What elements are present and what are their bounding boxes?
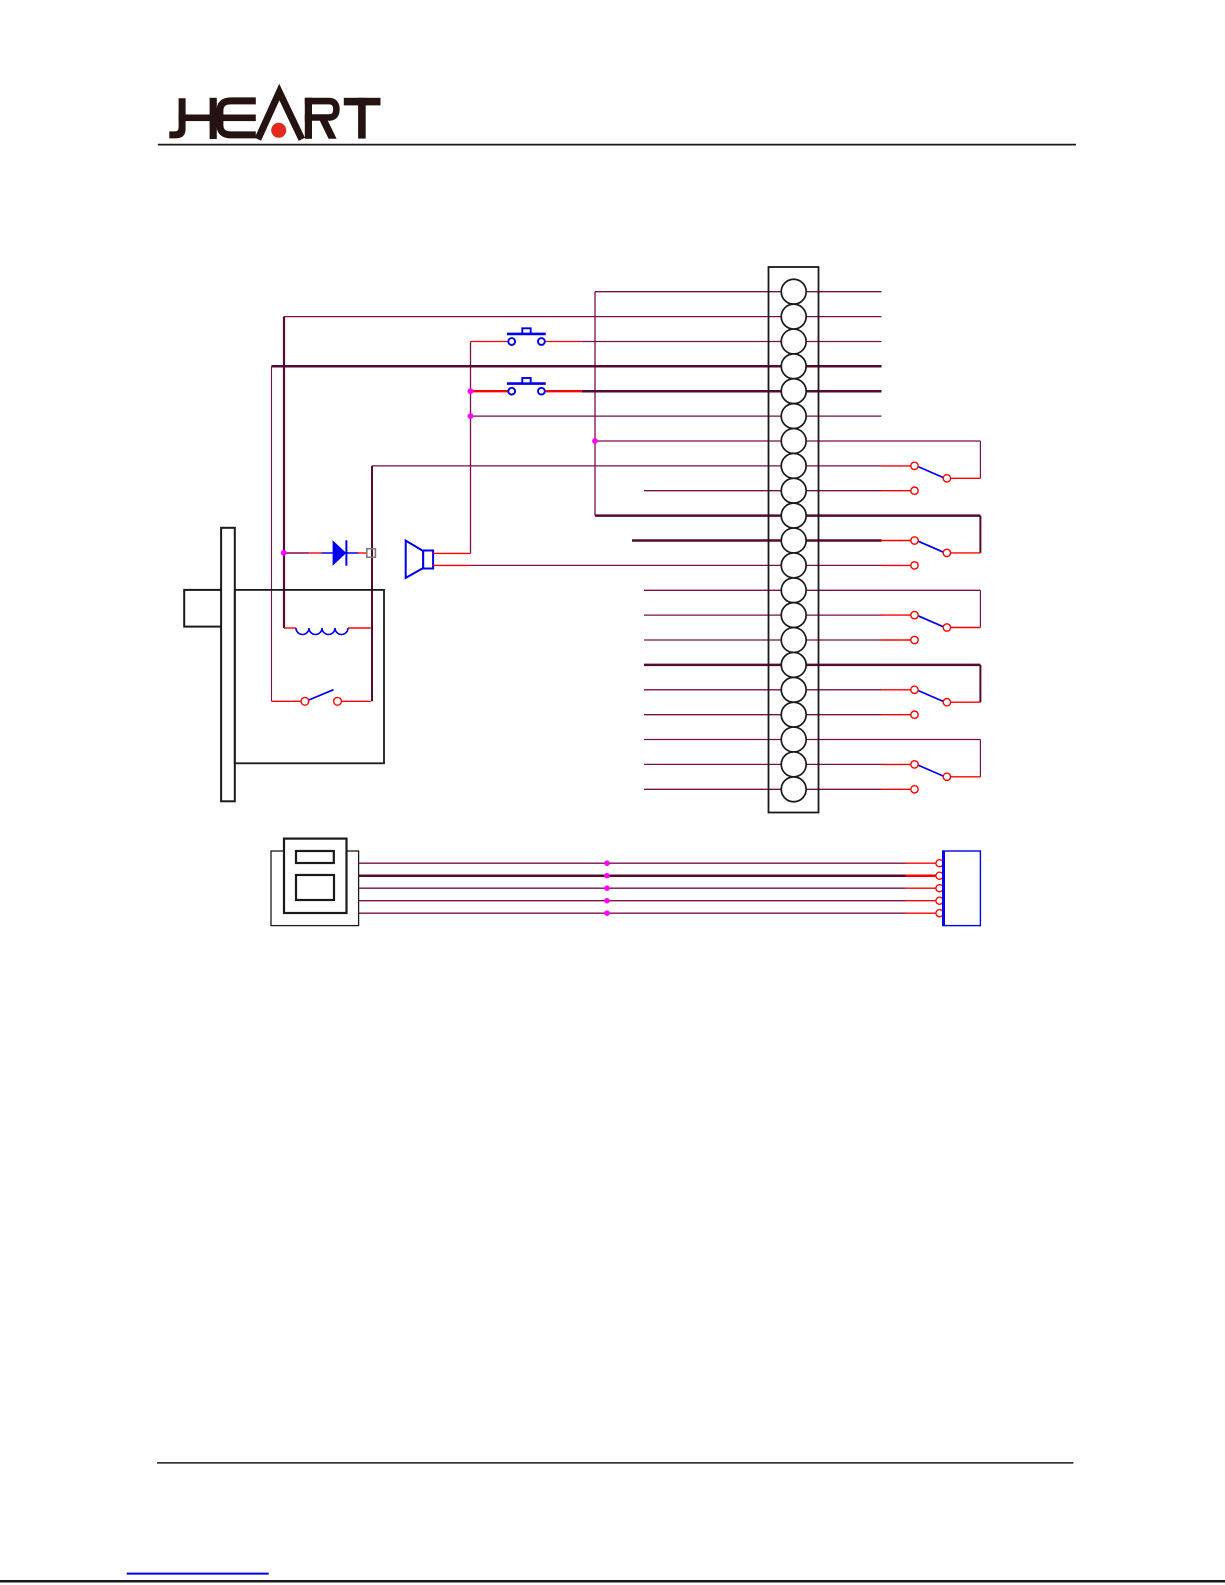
microswitch S3 NO contact xyxy=(882,636,919,643)
wire row 18 xyxy=(644,714,882,716)
speaker LS1 - lead xyxy=(433,564,470,566)
connector P1 key slot 1 xyxy=(296,851,334,863)
node: cable W1 junction xyxy=(604,860,610,866)
wire row 14 xyxy=(644,614,882,616)
header rule xyxy=(158,144,1076,146)
connector J1 pin 10 xyxy=(781,503,806,528)
connector J1 pin 19 xyxy=(781,727,806,752)
wire bus V1: row4 corner down to relay contact xyxy=(271,366,273,701)
footer rule xyxy=(157,1462,1073,1464)
connector J1 pin 1 xyxy=(781,279,806,304)
node: cable W3 junction xyxy=(604,885,610,891)
relay K1 contact blade xyxy=(309,690,334,700)
connector J1 pin 14 xyxy=(781,603,806,628)
wire row 9 xyxy=(644,490,882,492)
connector J1 pin 15 xyxy=(781,628,806,653)
connector J1 pin 21 xyxy=(781,777,806,802)
connector J1 pin 20 xyxy=(781,752,806,777)
cable wire W5 xyxy=(359,912,906,914)
cable wire W2 terminal xyxy=(936,872,943,879)
connector J1 pin 5 xyxy=(781,379,806,404)
page bottom border xyxy=(0,1580,1225,1583)
connector J1 body xyxy=(769,267,819,813)
connector J1 pin 12 xyxy=(781,553,806,578)
connector J1 pin 8 xyxy=(781,453,806,478)
connector J1 pin 16 xyxy=(781,652,806,677)
relay K1 coil leads xyxy=(284,627,296,629)
wire row 13 xyxy=(644,589,980,591)
relay K1 contact leads xyxy=(272,700,301,702)
connector P1 inner body xyxy=(284,839,347,913)
wire row 5 (right of pushbutton SW2) xyxy=(582,390,882,393)
diode D1 cathode wire xyxy=(358,552,367,554)
relay K1 mounting tab xyxy=(184,590,228,627)
wire row 12 xyxy=(470,564,882,566)
microswitch S3 xyxy=(882,611,981,631)
connector P1 key slot 2 xyxy=(296,875,334,900)
footer link underline xyxy=(127,1573,269,1575)
wire row 4 xyxy=(272,365,882,368)
connector J1 pin 4 xyxy=(781,354,806,379)
microswitch S1 loop wire xyxy=(979,441,981,478)
wire bus V4: row1 corner down to row10 xyxy=(594,292,596,516)
connector J1 pin 3 xyxy=(781,329,806,354)
wire row 3 (right of pushbutton SW1) xyxy=(582,341,882,343)
wire row 11 xyxy=(632,539,882,542)
node: row6 junction xyxy=(468,413,474,419)
speaker LS1 xyxy=(406,541,433,578)
diode D1 xyxy=(322,540,358,565)
microswitch S3 loop wire xyxy=(979,590,981,627)
wire row 1 xyxy=(595,291,882,293)
node: diode anode junction xyxy=(281,550,287,556)
pushbutton SW1 xyxy=(471,328,582,345)
connector J1 pin 9 xyxy=(781,478,806,503)
wire row 15 xyxy=(644,639,882,641)
cable wire W4 terminal xyxy=(936,897,943,904)
wire row 6 xyxy=(471,415,882,417)
connector J1 pin 7 xyxy=(781,429,806,454)
connector J1 pin 18 xyxy=(781,702,806,727)
wire row 10 xyxy=(595,514,980,517)
cable wire W3 xyxy=(359,887,906,889)
wire row 20 xyxy=(644,763,882,765)
connector J1 pin 17 xyxy=(781,677,806,702)
cable wire W5 terminal xyxy=(936,910,943,917)
microswitch S2 loop wire xyxy=(979,516,981,553)
HEART logo xyxy=(169,92,380,139)
node: SW2 feed junction xyxy=(468,388,474,394)
connector P1 outer shell xyxy=(271,851,359,926)
microswitch S5 xyxy=(882,761,981,781)
wire row 17 xyxy=(644,689,882,691)
wire bus V3: row8 corner down through diode pad to relay contact right xyxy=(371,466,373,701)
relay K1 bracket plate xyxy=(221,528,235,802)
wire row 8 xyxy=(372,465,882,467)
diode D1 anode wire xyxy=(284,552,309,554)
microswitch S2 NO contact xyxy=(882,562,919,569)
microswitch S1 NO contact xyxy=(882,487,919,494)
node: cable W4 junction xyxy=(604,898,610,904)
wire row 2 xyxy=(284,316,882,318)
microswitch S4 NO contact xyxy=(882,711,919,718)
microswitch S5 NO contact xyxy=(882,786,919,793)
relay K1 contact terminals xyxy=(301,697,309,705)
cable wire W1 terminal xyxy=(936,860,943,867)
relay K1 body xyxy=(235,590,384,763)
relay K1 coil xyxy=(296,628,348,635)
wire row 19 xyxy=(644,739,980,741)
microswitch S5 loop wire xyxy=(979,740,981,777)
wire bus V2: row2 corner down to relay coil left xyxy=(283,317,285,628)
wire row 16 xyxy=(644,664,980,667)
cable wire W2 xyxy=(359,874,906,877)
pad (grey square) on bus V3 xyxy=(367,549,376,558)
connector P2 pin edge xyxy=(942,851,945,926)
wire bus V5: button row corner down to speaker + lead xyxy=(470,342,472,554)
node: cable W2 junction xyxy=(604,873,610,879)
microswitch S1 xyxy=(882,462,981,482)
cable wire W4 xyxy=(359,900,906,902)
microswitch S4 xyxy=(882,686,981,706)
pushbutton SW2 xyxy=(471,378,582,395)
microswitch S4 loop wire xyxy=(979,665,981,702)
connector J1 pin 6 xyxy=(781,404,806,429)
connector J1 pin 2 xyxy=(781,304,806,329)
cable wire W3 terminal xyxy=(936,885,943,892)
microswitch S2 xyxy=(882,537,981,557)
connector J1 pin 11 xyxy=(781,528,806,553)
connector J1 pin 13 xyxy=(781,578,806,603)
connector P2 body xyxy=(943,851,981,926)
speaker LS1 + lead xyxy=(433,552,470,554)
wire row 21 xyxy=(644,788,882,790)
node: row7 junction on V4 xyxy=(592,438,598,444)
cable wire W1 xyxy=(359,862,906,864)
node: cable W5 junction xyxy=(604,910,610,916)
wire row 7 xyxy=(595,440,980,442)
